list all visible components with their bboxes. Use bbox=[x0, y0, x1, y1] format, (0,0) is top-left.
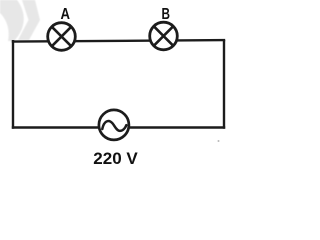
lamp A bbox=[48, 23, 76, 51]
svg-text:A: A bbox=[61, 6, 71, 23]
wire left bbox=[12, 40, 14, 129]
wire bottom bbox=[12, 126, 225, 128]
wire top bbox=[12, 40, 225, 42]
svg-text:B: B bbox=[162, 6, 171, 23]
ac source bbox=[99, 110, 129, 140]
lamp B bbox=[150, 22, 178, 50]
wire right bbox=[223, 40, 225, 129]
svg-text:220 V: 220 V bbox=[93, 149, 138, 168]
